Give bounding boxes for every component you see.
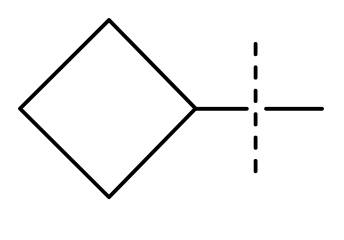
- cyclobutane ring (diamond): [20, 20, 196, 197]
- attachment-point dashed vertical line: [254, 44, 258, 172]
- bond segment left of attachment marker: [196, 107, 247, 111]
- bond segment right of attachment marker: [266, 107, 322, 111]
